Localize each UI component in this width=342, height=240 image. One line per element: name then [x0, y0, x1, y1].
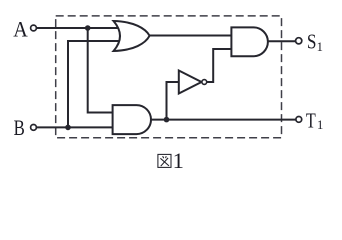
wire A branch down to AND2: [88, 28, 113, 113]
AND gate AND1 (to S1): [231, 27, 268, 56]
input terminal A: [31, 25, 37, 31]
svg-text:B: B: [14, 115, 25, 140]
dashed enclosure box: [56, 16, 282, 138]
wire junction to inverter input: [167, 82, 179, 120]
input terminal B: [31, 125, 37, 131]
inverter NOT1 triangle: [179, 71, 202, 94]
svg-text:1: 1: [317, 118, 323, 132]
svg-text:1: 1: [317, 40, 323, 54]
wire A horizontal: [36, 27, 119, 29]
caption kanji zu (drawn): [158, 154, 171, 167]
wire B horizontal: [36, 126, 112, 128]
junction dot on A wire: [85, 25, 91, 31]
svg-text:A: A: [13, 17, 28, 42]
svg-text:S: S: [307, 29, 317, 53]
AND gate AND2 (to T1): [113, 105, 151, 134]
inverter NOT1 bubble: [202, 80, 207, 85]
output terminal S1: [296, 38, 302, 44]
svg-text:T: T: [306, 109, 316, 133]
wire AND2 output to T1: [151, 119, 296, 121]
wire OR1 output to AND1: [150, 35, 232, 37]
wire AND1 output to S1: [268, 40, 296, 42]
OR gate OR1: [114, 21, 150, 51]
output terminal T1: [296, 117, 302, 123]
junction dot on B wire: [65, 125, 71, 131]
junction dot on AND2 output: [164, 117, 170, 123]
svg-text:1: 1: [173, 148, 184, 173]
wire B branch up to OR1: [68, 41, 119, 127]
wire inverter output to AND1: [207, 49, 232, 82]
